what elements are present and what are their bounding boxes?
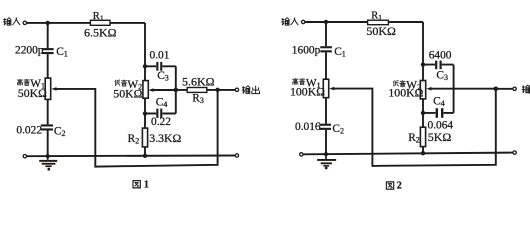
- node: input label 输入 (fig1): [3, 18, 20, 26]
- svg-text:3.3KΩ: 3.3KΩ: [149, 131, 181, 145]
- wire: top-right vertical down to W2 (fig2): [422, 22, 424, 81]
- junction: wiper/C3/C4/R3 node (fig1): [174, 88, 179, 93]
- wire: W1 wiper to output loop (fig2): [333, 89, 496, 166]
- junction: input node A (fig1): [46, 21, 50, 25]
- potentiometer W1 treble (fig2): [323, 79, 328, 98]
- resistor R1 (fig1): [90, 20, 110, 25]
- svg-text:100KΩ: 100KΩ: [388, 85, 423, 99]
- wire: right vertical through R2 (fig2): [422, 99, 424, 153]
- potentiometer W2 bass (fig2): [420, 81, 425, 99]
- capacitor C4 (fig1): [156, 109, 162, 118]
- capacitor C3 (fig1): [156, 62, 162, 71]
- capacitor C2 (fig1): [41, 124, 53, 130]
- svg-text:2: 2: [397, 180, 402, 191]
- label 低音W2: [115, 80, 127, 86]
- wire: C3 branch (fig2): [423, 65, 454, 113]
- wire: ground rail (fig2): [303, 153, 513, 155]
- wire: W2 wiper to output (fig2): [431, 88, 496, 90]
- wire: mid vertical through R2 (fig1): [144, 98, 146, 156]
- junction: R2 to ground rail (fig2): [421, 151, 425, 155]
- junction: output node (fig1): [215, 88, 219, 92]
- svg-text:2200p: 2200p: [15, 45, 44, 57]
- svg-text:50KΩ: 50KΩ: [18, 86, 47, 100]
- svg-text:6.5KΩ: 6.5KΩ: [84, 25, 117, 39]
- wire: top-right vertical down to W2 (fig1): [144, 23, 146, 81]
- wiper arrow W1 (fig1): [51, 87, 56, 91]
- wire: W1 wiper to output loop (fig1): [56, 89, 218, 167]
- output terminal (fig2): [513, 87, 516, 90]
- resistor R1 (fig2): [368, 20, 389, 25]
- caption 图1: [133, 180, 149, 191]
- wire: W2 wiper to node (fig1): [153, 89, 176, 91]
- wire: output node to terminal (fig2): [496, 88, 513, 90]
- ground symbol (fig1): [39, 156, 57, 171]
- svg-text:100KΩ: 100KΩ: [290, 84, 325, 98]
- label 低音W2 (fig2): [393, 80, 405, 86]
- node: output label 输(出) (fig2, clipped): [522, 85, 530, 94]
- svg-text:R1: R1: [93, 11, 104, 23]
- ground symbol (fig2): [317, 154, 336, 169]
- junction: C3 tap on mid vertical (fig1): [143, 64, 147, 68]
- junction: C4 tap on mid vertical (fig1): [143, 111, 147, 115]
- capacitor C3 (fig2): [435, 61, 442, 70]
- junction: R2 to ground rail (fig1): [143, 154, 147, 158]
- potentiometer W1 treble (fig1): [45, 78, 51, 99]
- wire: input top rail (fig2): [305, 21, 423, 23]
- ground terminal left (fig2): [300, 153, 303, 156]
- wiper arrow W2 (fig1): [148, 88, 153, 92]
- junction: C4 tap on right vertical (fig2): [421, 111, 425, 115]
- potentiometer W2 bass (fig1): [143, 81, 148, 99]
- svg-text:1: 1: [144, 180, 149, 191]
- svg-text:5.6KΩ: 5.6KΩ: [182, 74, 215, 88]
- svg-text:5KΩ: 5KΩ: [428, 130, 452, 144]
- svg-text:0.01: 0.01: [150, 50, 170, 62]
- wire: ground rail (fig1): [27, 155, 235, 158]
- resistor R2 (fig2): [420, 127, 425, 146]
- svg-text:50KΩ: 50KΩ: [113, 86, 142, 100]
- svg-text:50KΩ: 50KΩ: [366, 24, 396, 38]
- wiper arrow W1 (fig2): [329, 87, 334, 91]
- input terminal (fig1): [23, 21, 26, 24]
- capacitor C4 (fig2): [436, 108, 444, 118]
- junction: C2 to ground rail (fig1): [46, 154, 50, 158]
- svg-text:6400: 6400: [429, 49, 452, 61]
- junction: C3 tap on right vertical (fig2): [421, 62, 425, 66]
- svg-text:R1: R1: [371, 11, 382, 23]
- svg-text:0.022: 0.022: [16, 124, 42, 136]
- svg-text:1600p: 1600p: [292, 45, 321, 57]
- junction: C2 to ground rail (fig2): [324, 152, 328, 156]
- svg-text:0.016: 0.016: [295, 121, 321, 133]
- svg-text:0.22: 0.22: [151, 116, 171, 128]
- junction: output node (fig2): [494, 87, 499, 92]
- resistor R2 (fig1): [142, 128, 147, 147]
- capacitor C1 (fig1): [42, 48, 54, 54]
- ground rail terminal right (fig2): [513, 151, 516, 154]
- wire: C3 branch (fig1): [145, 66, 176, 90]
- caption 图2: [386, 180, 401, 191]
- label 高音W1: [17, 79, 30, 85]
- wire: node to R3 (fig1): [176, 89, 235, 91]
- wire: C4 branch (fig2): [423, 112, 454, 114]
- ground terminal (fig1): [23, 155, 26, 158]
- label 高音W1 (fig2): [292, 78, 305, 84]
- wire: C4 branch (fig1): [145, 90, 176, 114]
- capacitor C2 (fig2): [319, 124, 331, 130]
- node: output label 输出 (fig1): [242, 86, 260, 94]
- resistor R3 (fig1): [187, 88, 207, 93]
- wire: left column (fig1): [47, 23, 49, 156]
- capacitor C1 (fig2): [320, 46, 332, 52]
- input terminal (fig2): [302, 20, 305, 23]
- wire: left column (fig2): [325, 22, 327, 154]
- wiper arrow W2 (fig2): [426, 87, 431, 91]
- node: input label 输入 (fig2): [281, 18, 298, 26]
- junction: input node (fig2): [324, 20, 328, 24]
- output terminal (fig1): [235, 88, 238, 91]
- ground rail terminal right (fig1): [235, 154, 238, 157]
- wire: input top rail (fig1): [27, 22, 145, 24]
